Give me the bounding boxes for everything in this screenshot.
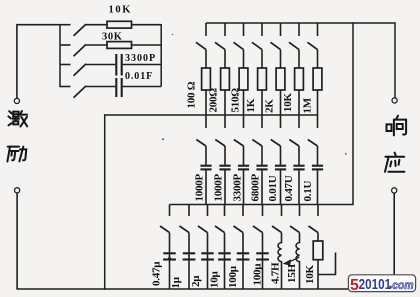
switch SB4	[215, 205, 225, 233]
svg-text:1K: 1K	[245, 98, 257, 112]
switch SB7	[272, 205, 282, 233]
watermark 520101.com box	[348, 275, 415, 292]
speck	[172, 34, 174, 36]
resistor R2 30K	[86, 42, 161, 49]
inductor L1 4.7H	[278, 233, 281, 289]
switch SR4	[252, 23, 262, 50]
svg-text:10K: 10K	[304, 265, 316, 285]
capacitor C14 100μ	[237, 233, 250, 289]
svg-text:200Ω: 200Ω	[208, 88, 220, 113]
wire: excitation upper lead (terminal up and right to selector bus)	[17, 25, 60, 99]
svg-text:3300P: 3300P	[232, 174, 244, 202]
svg-text:2μ: 2μ	[190, 275, 202, 287]
svg-text:100μ: 100μ	[252, 263, 264, 286]
wire: tap stub beside R10	[318, 253, 336, 275]
resistor R10 10K	[313, 233, 323, 289]
svg-text:100 Ω: 100 Ω	[186, 81, 198, 108]
wire: response lower lead down to watermark corner	[393, 193, 395, 276]
wire: top bus over resistor bank, corner down to response terminal	[206, 23, 395, 98]
switch S4 (0.01F row)	[60, 86, 86, 98]
svg-text:15H: 15H	[286, 264, 298, 284]
wire: selector block right bus	[160, 24, 162, 87]
resistor R9 1M	[313, 50, 322, 115]
switch SC1	[196, 115, 206, 146]
svg-text:0.47U: 0.47U	[283, 175, 295, 201]
label 响 (response char 1)	[387, 116, 407, 136]
svg-text:30K: 30K	[102, 31, 123, 42]
switch SB2	[180, 205, 190, 233]
svg-text:0.01F: 0.01F	[125, 71, 153, 82]
wire: bottom return bus	[16, 288, 349, 290]
switch S3 (3300P row)	[60, 64, 86, 76]
capacitor C3 1000P	[200, 146, 211, 205]
wire: middle node bus (resistor bank bottom / RC bank top)	[104, 114, 318, 116]
switch SR6	[289, 23, 299, 50]
switch SR5	[271, 23, 281, 50]
switch SC4	[252, 115, 262, 146]
capacitor C12 2μ	[201, 233, 214, 289]
switch SB8	[290, 205, 300, 233]
label 应 (response char 2)	[385, 153, 404, 172]
capacitor C4 1000P	[219, 146, 230, 205]
svg-text:4.7H: 4.7H	[270, 262, 282, 284]
svg-text:com: com	[392, 279, 414, 292]
capacitor C9 0.1U	[312, 146, 323, 205]
capacitor C13 10μ	[218, 233, 231, 289]
svg-text:3300P: 3300P	[125, 53, 156, 64]
switch SB9	[309, 205, 319, 233]
capacitor C2 0.01F	[86, 78, 161, 97]
svg-text:1μ: 1μ	[170, 276, 182, 288]
capacitor C6 6800P	[256, 146, 267, 205]
switch SR7	[308, 23, 318, 50]
capacitor C7 0.01U	[275, 146, 286, 205]
switch S2 (30K row)	[60, 44, 86, 56]
watermark .com	[389, 286, 391, 289]
switch S1 (10K row)	[60, 24, 86, 36]
speck	[345, 153, 347, 155]
svg-text:1M: 1M	[302, 97, 314, 113]
capacitor C10 0.47μ	[163, 233, 176, 289]
svg-text:6800P: 6800P	[250, 174, 262, 202]
svg-text:10μ: 10μ	[209, 271, 221, 289]
svg-text:5: 5	[350, 277, 359, 294]
capacitor C5 3300P	[238, 146, 249, 205]
switch SR3	[234, 23, 244, 50]
svg-text:0.47μ: 0.47μ	[150, 261, 162, 286]
switch SB3	[198, 205, 208, 233]
coupling arrow between L1 and L2	[283, 257, 300, 265]
capacitor C1 3300P	[86, 54, 161, 76]
label 励 (excitation char 2)	[7, 147, 26, 162]
inductor L2 15H	[296, 233, 299, 289]
svg-text:10K: 10K	[282, 93, 294, 113]
terminal: excitation -	[15, 188, 20, 193]
terminal: response -	[392, 188, 397, 193]
wire: right vertical bus	[352, 22, 354, 204]
resistor R1 10K	[86, 21, 161, 28]
svg-text:1000P: 1000P	[194, 174, 206, 202]
switch SC5	[271, 115, 281, 146]
terminal: excitation +	[14, 98, 19, 103]
svg-text:510Ω: 510Ω	[230, 88, 242, 113]
capacitor C15 100μ	[256, 233, 269, 289]
switch SC7	[308, 115, 318, 146]
wire: selector block left bus	[59, 24, 61, 87]
wire: capacitor bank bottom bus	[170, 204, 354, 206]
speck	[162, 138, 164, 140]
switch SC2	[215, 115, 225, 146]
svg-text:0.1U: 0.1U	[302, 181, 314, 202]
resistor R7 2K	[276, 50, 285, 115]
svg-text:2K: 2K	[264, 99, 276, 113]
resistor R5 510Ω	[239, 50, 248, 115]
resistor R8 10K	[295, 50, 304, 115]
wire: left vertical bus	[104, 114, 106, 289]
svg-text:10K: 10K	[109, 4, 132, 15]
resistor R4 200Ω	[221, 50, 230, 115]
switch SC6	[289, 115, 299, 146]
switch SC3	[234, 115, 244, 146]
resistor R6 1K	[258, 50, 267, 115]
capacitor C11 1μ	[183, 233, 196, 289]
wire: excitation lower lead down to bottom bus	[16, 193, 18, 289]
switch SB6	[253, 205, 263, 233]
terminal: response +	[392, 98, 397, 103]
switch SB5	[234, 205, 244, 233]
capacitor C8 0.47U	[293, 146, 304, 205]
svg-text:100μ: 100μ	[227, 265, 239, 288]
switch SR2	[215, 23, 225, 50]
resistor R3 100 Ω	[202, 50, 211, 115]
switch SB1	[160, 205, 170, 233]
svg-text:20101: 20101	[359, 276, 392, 293]
svg-text:0.01U: 0.01U	[267, 175, 279, 201]
switch SR1	[196, 23, 206, 50]
label 激 (excitation char 1)	[8, 111, 27, 127]
svg-text:1000P: 1000P	[213, 174, 225, 202]
